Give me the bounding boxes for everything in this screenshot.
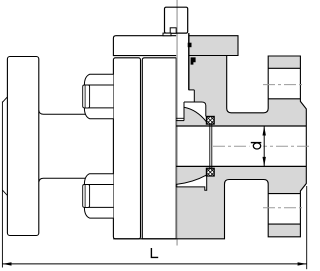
right flange upper bolt hole (white)	[268, 68, 300, 99]
stem collar step	[189, 89, 195, 91]
right flange lower bolt hole (white)	[268, 194, 300, 225]
upper bolt hole axis (dash-dot)	[263, 84, 305, 86]
stem collar right edge	[193, 90, 195, 102]
stud bolt lower : nut	[83, 174, 114, 218]
body cavity below ball (white)	[176, 175, 206, 190]
bonnet plate bottom edge on section	[189, 55, 227, 57]
stem shaft (unsectioned, white)	[176, 36, 194, 121]
dimension L : label	[151, 248, 158, 257]
stem tang right edge	[183, 102, 185, 121]
lower bolt hole axis (dash-dot)	[263, 207, 305, 209]
neck tube bottom line	[39, 178, 90, 182]
stem head inner step	[170, 28, 176, 33]
seat ring edge through bore	[209, 124, 211, 168]
lower seat ring (hatched)	[206, 168, 214, 176]
neck tube top line	[39, 110, 90, 114]
stem head (top square) : fill	[165, 7, 188, 33]
L right extension line	[306, 186, 308, 269]
stud bolt upper : nut	[83, 74, 114, 118]
body outline (section edges)	[113, 36, 306, 239]
bonnet top plate (external left half)	[113, 36, 176, 56]
left pipe flange (external view)	[7, 57, 38, 236]
stem tang bottom edges	[176, 117, 184, 119]
right flange bolt hole edges	[268, 67, 300, 69]
ball lower silhouette arc	[176, 175, 206, 185]
end-cap flange plate 1	[113, 58, 140, 239]
hub taper top	[2, 97, 7, 102]
valve body (sectioned right half, gray fill)	[176, 36, 306, 239]
dimension d : label	[251, 143, 261, 149]
left flange hub back line + L extension line	[1, 102, 3, 268]
stem head (top square) : outline	[165, 7, 188, 33]
vertical stem centerline (light gray)	[176, 0, 178, 246]
stem ledge	[163, 33, 171, 36]
bore bottom edge	[176, 165, 306, 167]
flow axis centerline (dash-dot)	[213, 145, 310, 147]
mask behind d label	[250, 140, 264, 150]
dimension d : line and arrows	[263, 126, 265, 166]
dimension L : line and arrows	[2, 263, 306, 265]
end-cap flange plate 2 (body side, cut at joint)	[142, 58, 176, 239]
hub taper bottom	[2, 190, 7, 195]
cavity below ball : outline	[176, 176, 206, 191]
cavity above ball : outline	[184, 102, 206, 116]
packing ring upper (black)	[188, 43, 192, 48]
body cavity above ball (white)	[184, 102, 206, 122]
bore top edge	[176, 125, 306, 127]
body joint line (cut plane)	[175, 58, 177, 239]
flow bore (white)	[176, 126, 306, 166]
ball upper silhouette arc	[184, 107, 206, 122]
packing ring lower (black)	[191, 57, 196, 64]
upper seat ring (hatched)	[206, 116, 214, 124]
stem shaft right edge	[188, 33, 190, 90]
